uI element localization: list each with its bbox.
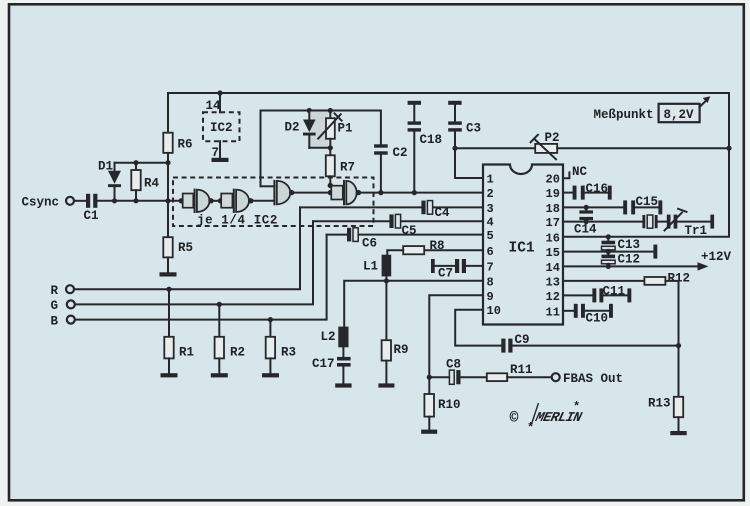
svg-text:C10: C10 bbox=[586, 312, 609, 326]
ground R9 bbox=[378, 383, 394, 387]
svg-text:19: 19 bbox=[546, 187, 560, 201]
wire pin 5 to C6 bbox=[358, 234, 483, 236]
wire U2b to U2c lower input bbox=[251, 200, 275, 202]
capacitor C2 bbox=[374, 144, 388, 147]
diode D2 bbox=[308, 111, 310, 120]
inductor L1 bbox=[382, 255, 392, 277]
wire top supply rail to right rail down to pin 16 bbox=[168, 93, 729, 237]
gate U2d (NAND) bbox=[331, 186, 343, 200]
svg-text:5: 5 bbox=[487, 229, 494, 243]
svg-text:R8: R8 bbox=[430, 239, 445, 253]
svg-text:FBAS Out: FBAS Out bbox=[563, 372, 623, 386]
svg-text:*: * bbox=[573, 400, 580, 414]
svg-text:R5: R5 bbox=[178, 241, 193, 255]
ground R1 bbox=[161, 373, 178, 377]
wire R12 right corner down bbox=[665, 281, 678, 397]
wire C6 left to B riser bbox=[327, 234, 347, 236]
resistor R8 bbox=[403, 246, 424, 254]
node rail/Messpunkt tap junction bbox=[726, 146, 731, 151]
resistor R6 bbox=[163, 133, 172, 153]
IC U1 body IC1 bbox=[483, 165, 563, 325]
node C14 bottom junction bbox=[584, 219, 589, 224]
node U2d output bbox=[356, 190, 361, 195]
node R1 top junction bbox=[166, 287, 171, 292]
wire D1/R4 top tie bbox=[115, 162, 169, 164]
svg-text:14: 14 bbox=[546, 261, 560, 275]
wire pin 11 to C10 bbox=[563, 310, 574, 312]
box 8,2V measuring point bbox=[659, 104, 700, 122]
ground R10 bbox=[421, 430, 437, 434]
svg-text:9: 9 bbox=[487, 290, 494, 304]
gate U2b (NAND as inverter) bbox=[221, 194, 232, 208]
svg-text:C7: C7 bbox=[438, 266, 453, 280]
svg-text:C17: C17 bbox=[312, 357, 335, 371]
ground pin15 (bar) bbox=[653, 245, 657, 259]
node D2 top junction bbox=[307, 108, 312, 113]
svg-text:D1: D1 bbox=[98, 160, 113, 174]
resistor R2 bbox=[218, 304, 220, 336]
resistor R7 bbox=[329, 148, 331, 156]
inductor L2 bbox=[338, 327, 348, 348]
svg-text:IC1: IC1 bbox=[509, 241, 535, 257]
capacitor C4 (electrolytic) bbox=[427, 201, 432, 215]
svg-text:15: 15 bbox=[546, 246, 560, 260]
svg-text:7: 7 bbox=[212, 146, 220, 160]
ground R13 bbox=[670, 431, 686, 435]
svg-text:C2: C2 bbox=[393, 146, 408, 160]
svg-text:2: 2 bbox=[487, 187, 494, 201]
svg-text:R13: R13 bbox=[648, 397, 671, 411]
crystal Q1 ceramic resonator bbox=[642, 215, 645, 228]
svg-text:16: 16 bbox=[546, 231, 560, 245]
node C2 bottom junction bbox=[378, 190, 383, 195]
wire R13 to ground bbox=[678, 417, 680, 431]
resistor R4 bbox=[135, 163, 137, 170]
wire C15 to ground bar bbox=[635, 206, 658, 208]
svg-text:C1: C1 bbox=[84, 209, 99, 223]
node R4 bottom junction bbox=[133, 198, 138, 203]
wire P2 line right to rail bbox=[557, 147, 729, 149]
capacitor C9 bbox=[501, 339, 505, 353]
pin 20 NC stub bbox=[563, 172, 569, 178]
capacitor C1 bbox=[86, 194, 90, 208]
svg-text:R4: R4 bbox=[144, 177, 160, 191]
svg-text:D2: D2 bbox=[285, 121, 300, 135]
capacitor C6 (electrolytic) bbox=[353, 228, 358, 242]
ground IC2 pin 7 bbox=[212, 158, 229, 162]
svg-text:L1: L1 bbox=[363, 259, 378, 273]
wire P2 line left bbox=[455, 147, 535, 149]
wire C17 to ground bbox=[342, 367, 344, 384]
svg-text:C5: C5 bbox=[402, 224, 417, 238]
wire C10 to ground bar bbox=[585, 310, 609, 312]
ground C18 top bbox=[408, 101, 421, 105]
node U2c output bbox=[289, 190, 294, 195]
capacitor C13 (electrolytic) bbox=[607, 237, 609, 241]
svg-text:R11: R11 bbox=[510, 363, 533, 377]
svg-text:13: 13 bbox=[546, 275, 560, 289]
wire left column middle segment bbox=[167, 153, 169, 237]
resistor R12 bbox=[644, 277, 665, 285]
MERLIN handwritten signature bbox=[533, 411, 584, 426]
node C13/C12 mid junction on pin 15 bbox=[606, 249, 611, 254]
capacitor C18 bbox=[413, 105, 415, 122]
wire C11 to ground bar bbox=[603, 294, 627, 296]
svg-text:P1: P1 bbox=[338, 122, 353, 136]
node Csync wire junction bbox=[165, 198, 170, 203]
svg-text:R7: R7 bbox=[340, 161, 355, 175]
svg-text:14: 14 bbox=[206, 99, 222, 113]
wire pin 12 to C11 bbox=[563, 294, 592, 296]
ground C16 (bar) bbox=[608, 186, 612, 200]
svg-text:L2: L2 bbox=[321, 330, 336, 344]
wire pin 13 to R12 bbox=[563, 280, 644, 282]
svg-text:8,2V: 8,2V bbox=[664, 108, 695, 122]
wire R line to riser up to pin 3 net bbox=[74, 207, 300, 289]
node R3 top junction bbox=[268, 317, 273, 322]
wire pin 8 long line to L2 bbox=[344, 281, 483, 327]
svg-text:Meßpunkt: Meßpunkt bbox=[594, 108, 654, 122]
svg-text:R9: R9 bbox=[394, 343, 409, 357]
wire C1 to gate 1 input bbox=[97, 200, 181, 202]
gate U2a input node bbox=[179, 198, 184, 203]
svg-text:NC: NC bbox=[572, 165, 588, 179]
wire pin 15 to ground bar bbox=[563, 251, 653, 253]
svg-text:+12V: +12V bbox=[701, 250, 732, 264]
shaded area between D2 and P1 bbox=[311, 112, 329, 148]
wire G line to riser up to pin 4 net bbox=[75, 221, 313, 304]
wire C7 to ground bar bbox=[435, 265, 455, 267]
wire terminal to C1 bbox=[74, 200, 86, 202]
node R2 top junction bbox=[217, 302, 222, 307]
svg-text:C8: C8 bbox=[446, 358, 461, 372]
svg-text:R1: R1 bbox=[179, 345, 194, 359]
gate U2d input nodes bbox=[328, 190, 333, 195]
svg-text:R6: R6 bbox=[178, 138, 193, 152]
wire U2c upper input feedback bbox=[261, 185, 275, 187]
svg-text:R2: R2 bbox=[230, 345, 245, 359]
svg-text:G: G bbox=[51, 299, 59, 313]
wire pin 6 to R8 bbox=[424, 249, 483, 251]
wire pin 3 to C4 bbox=[433, 206, 483, 208]
wire oscillator loop: U2c upper input up, across top, down to C2 bbox=[261, 111, 381, 187]
node L1 bottom junction bbox=[384, 278, 389, 283]
wire R8 left down to L1 bbox=[387, 250, 403, 255]
capacitor C17 bbox=[342, 347, 344, 357]
gates dashed box je 1/4 IC2 bbox=[173, 178, 374, 227]
wire left column upper segment bbox=[167, 93, 169, 133]
node R7 top junction bbox=[328, 145, 333, 150]
wire pin 19 to C16 bbox=[563, 192, 573, 194]
wire B line to riser up to pin 5 net bbox=[75, 235, 327, 320]
svg-text:20: 20 bbox=[546, 173, 560, 187]
resistor R9 bbox=[385, 281, 387, 340]
node D1 bottom junction bbox=[112, 198, 117, 203]
node C18 bottom junction bbox=[412, 190, 417, 195]
svg-text:P2: P2 bbox=[545, 131, 560, 145]
resistor R10 bbox=[428, 377, 430, 394]
node U2a output bbox=[208, 198, 213, 203]
node rail/IC2 pin14 junction bbox=[217, 90, 222, 95]
ground R2 bbox=[211, 373, 228, 377]
svg-text:R10: R10 bbox=[438, 398, 461, 412]
wire pin 9 down to C8 line bbox=[429, 295, 483, 377]
svg-text:C3: C3 bbox=[466, 122, 481, 136]
node C14 top junction bbox=[584, 205, 589, 210]
potentiometer P1 bbox=[329, 111, 331, 119]
capacitor C7 bbox=[462, 259, 466, 273]
resistor R13 bbox=[674, 397, 683, 417]
wire pin 7 to C7 bbox=[466, 265, 483, 267]
wire crystal to Tr1 bbox=[658, 221, 667, 223]
ground Tr1 (bar) bbox=[710, 215, 714, 229]
node FBAS Out terminal bbox=[552, 373, 560, 381]
wire D2/P1 bottom tie bbox=[309, 147, 330, 149]
ground C3 top bbox=[448, 101, 461, 105]
wire pin 17 to crystal bbox=[563, 221, 642, 223]
node C3/P2/pin1 junction bbox=[452, 146, 457, 151]
wire pin 18 to C15 bbox=[563, 206, 623, 208]
svg-text:18: 18 bbox=[546, 202, 560, 216]
gate U2c (NAND) bbox=[273, 181, 275, 204]
resistor R5 bbox=[163, 237, 172, 257]
svg-text:12: 12 bbox=[546, 290, 560, 304]
svg-text:C16: C16 bbox=[586, 182, 609, 196]
svg-text:Csync: Csync bbox=[22, 196, 60, 210]
svg-text:C6: C6 bbox=[362, 237, 377, 251]
wire junction to C8 bbox=[429, 376, 449, 378]
capacitor C16 bbox=[573, 186, 577, 200]
ground C7 (bar) bbox=[431, 259, 435, 273]
ground R5 bbox=[160, 272, 177, 276]
svg-text:1: 1 bbox=[487, 173, 494, 187]
svg-text:R3: R3 bbox=[281, 345, 296, 359]
node C9 line junction bbox=[676, 343, 681, 348]
capacitor C5 (electrolytic) bbox=[395, 214, 400, 228]
node D1R4 top wire junction bbox=[165, 160, 170, 165]
capacitor C8 (electrolytic) bbox=[449, 370, 454, 384]
svg-text:Tr1: Tr1 bbox=[685, 224, 708, 238]
svg-text:C13: C13 bbox=[618, 238, 641, 252]
ground C11 (bar) bbox=[627, 288, 631, 302]
wire U2a to U2b bbox=[211, 200, 221, 202]
node C13 chain top junction on pin 16 bbox=[606, 234, 611, 239]
svg-text:8: 8 bbox=[487, 275, 494, 289]
capacitor C15 bbox=[623, 200, 627, 214]
capacitor C11 bbox=[592, 288, 596, 302]
node P1 top junction bbox=[328, 108, 333, 113]
svg-text:B: B bbox=[51, 314, 59, 328]
gate U2b input node bbox=[218, 198, 223, 203]
wire Tr1 to ground bar bbox=[677, 221, 710, 223]
node C8/R10 junction bbox=[427, 375, 432, 380]
svg-text:11: 11 bbox=[546, 305, 560, 319]
wire U2c output to U2d input bbox=[292, 192, 331, 194]
svg-text:R: R bbox=[51, 284, 59, 298]
svg-text:4: 4 bbox=[487, 216, 494, 230]
wire C8 to R11 bbox=[461, 376, 487, 378]
resistor R1 bbox=[168, 289, 170, 337]
svg-text:C14: C14 bbox=[574, 223, 597, 237]
capacitor C3 bbox=[454, 105, 456, 122]
svg-text:6: 6 bbox=[487, 245, 494, 259]
svg-text:7: 7 bbox=[487, 260, 494, 274]
wire R5 to ground bbox=[167, 257, 169, 272]
ground C10 (bar) bbox=[609, 304, 613, 318]
svg-text:17: 17 bbox=[546, 216, 560, 230]
op-amp IC2 power box (dashed) bbox=[203, 112, 240, 141]
svg-text:C12: C12 bbox=[618, 252, 641, 266]
svg-text:10: 10 bbox=[487, 304, 501, 318]
resistor R3 bbox=[269, 320, 271, 337]
wire C4 left to R riser bbox=[300, 206, 421, 208]
svg-text:C4: C4 bbox=[435, 206, 451, 220]
wire pin 14 +12V supply arrow bbox=[563, 265, 699, 267]
wire R11 to FBAS terminal bbox=[507, 376, 551, 378]
wire C16 to ground bar bbox=[585, 192, 608, 194]
svg-text:©: © bbox=[510, 410, 519, 427]
node C12 bottom junction on pin 14 bbox=[606, 264, 611, 269]
resistor R11 bbox=[487, 373, 507, 381]
capacitor C12 (electrolytic) bbox=[602, 255, 616, 259]
capacitor C14 bbox=[585, 207, 587, 210]
node U2b output bbox=[248, 198, 253, 203]
svg-text:IC2: IC2 bbox=[210, 121, 233, 135]
wire U2d output to IC1 pin 2 bbox=[359, 192, 484, 194]
potentiometer P2 bbox=[535, 144, 557, 153]
ground R3 bbox=[262, 373, 279, 377]
wire C9 to R12/R13 column bbox=[513, 345, 679, 347]
svg-text:C18: C18 bbox=[420, 133, 443, 147]
ground C17 bbox=[335, 383, 351, 387]
gate U2a (NAND as inverter) bbox=[183, 194, 194, 208]
diode D1 bbox=[114, 163, 116, 171]
wire pin 10 down and right to C9 bbox=[455, 310, 501, 346]
svg-text:3: 3 bbox=[487, 202, 494, 216]
ground C15 (bar) bbox=[658, 200, 662, 214]
wire pin 4 to C5 bbox=[401, 220, 483, 222]
arrow probe at 8,2V box bbox=[700, 99, 708, 107]
wire C3 down to IC1 pin 1 bbox=[455, 132, 483, 178]
svg-text:*: * bbox=[527, 421, 534, 435]
wire C5 left to G riser bbox=[313, 220, 389, 222]
node R4 top junction bbox=[133, 160, 138, 165]
capacitor C10 bbox=[574, 304, 578, 318]
svg-text:je 1/4 IC2: je 1/4 IC2 bbox=[197, 214, 278, 228]
trimmer capacitor Tr1 bbox=[667, 215, 671, 229]
